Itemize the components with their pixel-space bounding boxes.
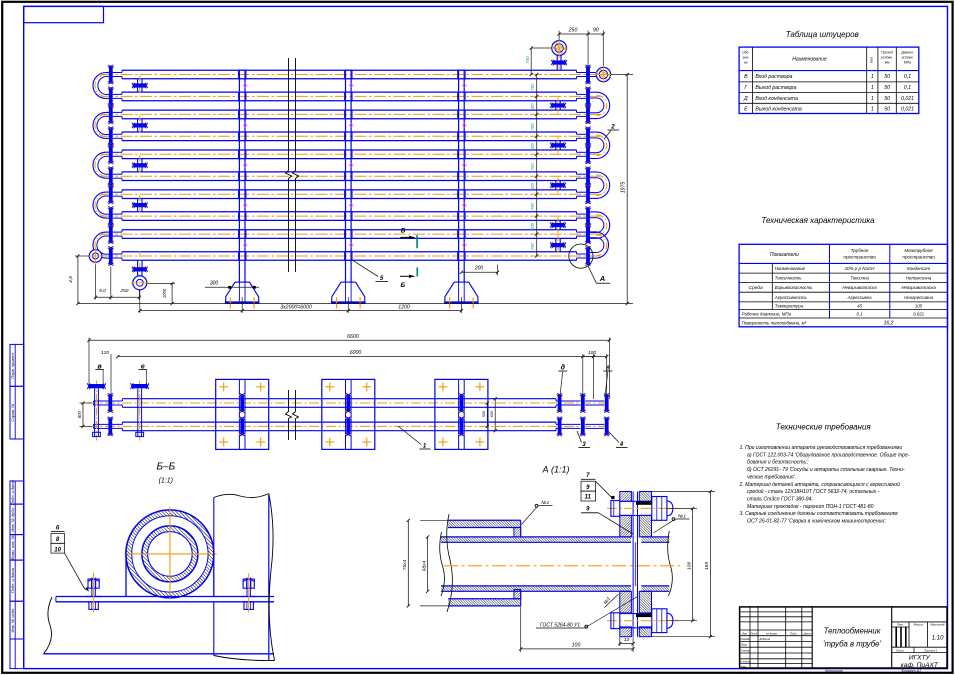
svg-text:Инв. № дубл.: Инв. № дубл. xyxy=(10,507,15,532)
А centerline xyxy=(444,565,680,567)
svg-text:Лист: Лист xyxy=(750,631,759,635)
detail circle А xyxy=(569,244,593,268)
svg-text:1:10: 1:10 xyxy=(932,636,944,642)
svg-text:2. Материал деталей аппарата,: 2. Материал деталей аппарата, соприкасаю… xyxy=(739,481,901,488)
svg-text:д: д xyxy=(561,364,566,372)
pipe row 3 inner tube stubs xyxy=(113,111,122,113)
svg-text:750: 750 xyxy=(530,202,535,210)
svg-text:Вход раствора: Вход раствора xyxy=(755,74,792,80)
svg-text:Листов 1: Листов 1 xyxy=(923,649,938,653)
svg-text:108: 108 xyxy=(686,562,692,570)
svg-text:50: 50 xyxy=(884,74,890,80)
svg-text:№ докум.: № докум. xyxy=(766,631,778,635)
svg-text:ГОСТ 5264-80 У1: ГОСТ 5264-80 У1 xyxy=(540,623,580,629)
svg-text:1. При изготовлении аппарата р: 1. При изготовлении аппарата руководство… xyxy=(740,445,903,451)
right U-bend pair 9-10 xyxy=(597,232,609,258)
left margin stamp boxes lower xyxy=(10,481,24,504)
svg-text:750: 750 xyxy=(530,83,535,91)
svg-text:Подп. и дата: Подп. и дата xyxy=(10,567,15,593)
Б-Б bolts xyxy=(91,578,93,597)
left flange pair rows 3,4 xyxy=(109,107,113,122)
svg-text:Давлен.: Давлен. xyxy=(900,51,914,55)
svg-text:А (1:1): А (1:1) xyxy=(541,465,569,475)
right annulus jumper pair 9-10 xyxy=(555,238,557,251)
support post 1 xyxy=(238,70,240,283)
left annulus jumper pair 1-2 xyxy=(137,79,139,92)
right U-bend pair 8-9 xyxy=(597,212,610,238)
pipe row 9 outer tube xyxy=(122,229,577,231)
А dimension Ø76х4 left xyxy=(420,519,448,521)
dimension 1975 right xyxy=(611,74,633,76)
svg-text:50: 50 xyxy=(884,85,890,91)
svg-text:Изм: Изм xyxy=(742,631,747,635)
svg-text:Таблица штуцеров: Таблица штуцеров xyxy=(786,30,859,39)
svg-text:Взрывоопасность: Взрывоопасность xyxy=(775,285,813,290)
svg-text:300: 300 xyxy=(210,281,219,287)
svg-text:1000: 1000 xyxy=(162,288,167,298)
Б-Б inner pipe ring hatched xyxy=(142,526,198,582)
support post 2 foot xyxy=(332,282,365,302)
svg-text:1975: 1975 xyxy=(620,182,626,194)
section mark Б lower xyxy=(416,267,418,276)
dimension 250/90 top xyxy=(558,31,560,41)
svg-text:Наименование: Наименование xyxy=(792,57,827,63)
left U-bend pair 5-6 xyxy=(93,152,106,178)
svg-text:Разраб.: Разраб. xyxy=(741,637,751,641)
svg-text:10: 10 xyxy=(54,548,61,554)
pipe row 5 centerline xyxy=(101,153,601,155)
right U-bend pair 2-3 xyxy=(597,92,610,118)
pipe row 2 outer tube xyxy=(122,91,577,93)
pipe row 8 centerline xyxy=(101,215,601,217)
svg-text:Техническая характеристика: Техническая характеристика xyxy=(761,216,875,225)
svg-text:Рабочее давление, МПа: Рабочее давление, МПа xyxy=(742,312,792,317)
title block horizontal lines left xyxy=(740,611,813,613)
left flange pair rows 5,6 xyxy=(109,147,113,162)
row1 right flange and nozzle (Г) xyxy=(586,67,590,82)
svg-text:1: 1 xyxy=(871,85,874,91)
svg-text:Б–Б: Б–Б xyxy=(157,462,176,473)
svg-text:105: 105 xyxy=(915,304,923,309)
svg-text:68х4: 68х4 xyxy=(421,560,427,571)
right U-bend pair 6-7 xyxy=(597,172,610,198)
А gasket joint lines xyxy=(632,492,634,637)
А outer pipe walls hatched xyxy=(448,520,521,527)
svg-text:Температура: Температура xyxy=(775,304,804,309)
svg-text:Межтрубное: Межтрубное xyxy=(904,248,933,253)
svg-text:0,1: 0,1 xyxy=(857,312,864,317)
svg-text:100: 100 xyxy=(572,643,581,649)
svg-text:100: 100 xyxy=(588,350,596,356)
svg-text:сталь Ст3сп ГОСТ 380-94.: сталь Ст3сп ГОСТ 380-94. xyxy=(747,496,813,502)
svg-text:№1: №1 xyxy=(541,500,549,506)
svg-text:1: 1 xyxy=(871,96,874,102)
svg-text:Формат А1: Формат А1 xyxy=(901,669,921,673)
break lines main view xyxy=(288,58,290,171)
Б-Б outer pipe ring hatched xyxy=(126,510,214,598)
svg-text:Добрина: Добрина xyxy=(759,637,771,641)
right annulus jumper pair 8-9 xyxy=(555,220,557,229)
svg-text:1: 1 xyxy=(871,74,874,80)
right flange pair rows 8,9 xyxy=(586,209,590,224)
pipe row 8 outer tube xyxy=(122,211,577,213)
left flange pair rows 7,8 xyxy=(109,187,113,202)
svg-text:Д: Д xyxy=(743,96,748,102)
position label 2 with leader xyxy=(604,131,611,140)
svg-text:Показатели: Показатели xyxy=(770,252,799,258)
plan dimension 6600 xyxy=(88,338,90,384)
plan view standpipe Е xyxy=(137,388,139,436)
А bolts xyxy=(607,507,678,509)
svg-text:6000: 6000 xyxy=(350,350,362,356)
svg-text:200: 200 xyxy=(474,266,484,272)
svg-text:600: 600 xyxy=(530,103,535,111)
plan left vertical dimension 800 xyxy=(80,402,93,404)
svg-text:13: 13 xyxy=(624,637,630,643)
characteristics table grid xyxy=(739,244,947,326)
svg-text:№1: №1 xyxy=(678,514,686,520)
Б-Б saddle support xyxy=(125,549,127,597)
svg-text:Проход: Проход xyxy=(881,51,893,55)
pipe row 5 outer tube xyxy=(122,149,577,151)
svg-text:11: 11 xyxy=(585,495,592,501)
nozzle А1 left (row10) xyxy=(89,250,102,263)
А pipe break lines xyxy=(447,514,453,612)
pipe row 10 inner tube stubs xyxy=(113,253,122,255)
support post 3 weld diamonds xyxy=(462,83,466,87)
А dimension 13 bottom xyxy=(619,637,621,646)
svg-text:Справ. №: Справ. № xyxy=(10,403,15,422)
dimension 300 at foot 1 xyxy=(205,286,259,288)
row spacing dimension column xyxy=(536,75,538,257)
А inner pipe walls hatched xyxy=(441,537,631,542)
svg-text:Лит.: Лит. xyxy=(896,622,904,626)
support post 1 weld diamonds xyxy=(243,83,247,87)
Б-Б centerlines xyxy=(124,553,216,555)
svg-text:Кол: Кол xyxy=(869,57,873,63)
svg-text:0,1: 0,1 xyxy=(904,85,911,91)
pipe row 2 inner tube stubs xyxy=(113,93,122,95)
svg-text:800: 800 xyxy=(77,411,82,419)
svg-text:Невзрывоопасна: Невзрывоопасна xyxy=(901,285,936,290)
А dimension Ø108 right xyxy=(667,507,697,509)
svg-text:Взам. инв. №: Взам. инв. № xyxy=(10,534,15,559)
svg-text:3. Сварные соединения должны с: 3. Сварные соединения должны соответство… xyxy=(740,511,899,517)
svg-text:Б: Б xyxy=(401,228,406,235)
svg-text:Неагрессивна: Неагрессивна xyxy=(904,295,934,300)
svg-text:А: А xyxy=(599,274,605,283)
svg-text:ческие требования'.: ческие требования'. xyxy=(747,474,796,480)
plan view pipes xyxy=(122,398,556,400)
svg-text:600: 600 xyxy=(490,410,494,417)
svg-text:Материал прокладок - паронит П: Материал прокладок - паронит ПОН-1 ГОСТ … xyxy=(747,504,874,510)
left flange pair rows 9,10 xyxy=(109,227,113,242)
svg-text:Трубное: Трубное xyxy=(851,248,869,253)
nozzle stub down row10 xyxy=(137,260,139,276)
svg-text:0,021: 0,021 xyxy=(913,312,925,317)
svg-text:Лист: Лист xyxy=(895,649,904,653)
svg-text:Обо-: Обо- xyxy=(742,51,750,55)
pipe row 10 outer tube xyxy=(122,251,577,253)
svg-text:750: 750 xyxy=(530,242,535,250)
svg-text:Нетоксична: Нетоксична xyxy=(906,276,932,281)
left U-bend pair 1-2 xyxy=(93,73,106,99)
plan inner vertical dimensions xyxy=(486,403,488,426)
svg-text:В: В xyxy=(744,74,748,80)
pipe row 1 centerline xyxy=(101,74,603,76)
svg-text:Агрессивна: Агрессивна xyxy=(847,295,872,300)
svg-text:Среда: Среда xyxy=(749,285,763,291)
А flange plates hatched xyxy=(620,492,632,502)
plan dimension 6000 xyxy=(110,354,112,395)
nozzle top (В) with stub xyxy=(552,41,567,56)
svg-text:Токсичность: Токсичность xyxy=(775,276,803,281)
pipe row 6 outer tube xyxy=(122,171,577,173)
nozzle Б2 below xyxy=(133,276,147,290)
svg-text:Подп. и дата: Подп. и дата xyxy=(10,479,15,505)
support post 2 xyxy=(345,70,347,283)
dimension 4,5 far left vertical xyxy=(75,255,89,257)
dimension 3x2000=6000 and 1200 bottom xyxy=(139,290,141,314)
left U-bend pair 7-8 xyxy=(93,192,106,218)
pipe row 5 inner tube stubs xyxy=(113,151,122,153)
left annulus jumper pair 3-4 xyxy=(137,119,139,132)
svg-text:Дата: Дата xyxy=(803,631,811,635)
svg-text:250: 250 xyxy=(568,28,578,34)
svg-text:4,5: 4,5 xyxy=(68,276,74,283)
plan view standpipe В xyxy=(94,388,96,436)
left annulus jumper pair 7-8 xyxy=(137,199,139,212)
svg-text:750: 750 xyxy=(525,56,530,64)
svg-text:Инв. № подл.: Инв. № подл. xyxy=(10,608,15,633)
svg-text:Поверхность теплообмена, м²: Поверхность теплообмена, м² xyxy=(742,320,807,325)
svg-text:16,2: 16,2 xyxy=(884,320,894,326)
pipe row 10 centerline xyxy=(101,255,601,257)
position label 5 with leader xyxy=(351,259,378,276)
right flange pair rows 2,3 xyxy=(586,89,590,104)
svg-text:Масса: Масса xyxy=(914,622,923,626)
plan view left inner-pipe flanges xyxy=(108,395,112,410)
svg-text:Выход раствора: Выход раствора xyxy=(755,85,796,91)
svg-text:(1:1): (1:1) xyxy=(159,478,173,485)
dimension 1000 nozzle drop xyxy=(148,283,176,285)
pipe row 1 outer tube xyxy=(122,69,577,71)
svg-text:Конденсат: Конденсат xyxy=(907,266,930,271)
plan position label 3 xyxy=(577,431,582,443)
А dimension Ø68х4 left inner xyxy=(427,537,429,591)
svg-text:0,021: 0,021 xyxy=(901,106,914,112)
pipe row 2 centerline xyxy=(101,95,601,97)
svg-text:90: 90 xyxy=(593,28,599,34)
svg-text:Агрессивность: Агрессивность xyxy=(774,295,808,300)
svg-text:Е: Е xyxy=(744,106,748,112)
svg-text:0,021: 0,021 xyxy=(901,96,914,102)
left margin stamp boxes upper xyxy=(10,344,24,386)
pipe row 3 centerline xyxy=(101,113,601,115)
plan dimension 100 xyxy=(582,354,584,396)
svg-text:ка: ка xyxy=(744,61,748,65)
А inner pipe right segment xyxy=(641,537,669,542)
Б-Б lower beam xyxy=(44,653,275,655)
pipe row 4 outer tube xyxy=(122,131,577,133)
pipe row 3 outer tube xyxy=(122,109,577,111)
svg-text:'труба в трубе': 'труба в трубе' xyxy=(823,640,881,649)
plan position label 4 xyxy=(608,431,619,443)
support post 2 weld diamonds xyxy=(349,83,353,87)
pipe row 6 inner tube stubs xyxy=(113,173,122,175)
svg-text:условн.: условн. xyxy=(901,56,914,60)
pipe row 6 centerline xyxy=(101,175,601,177)
svg-text:600: 600 xyxy=(530,183,535,191)
pipe row 7 centerline xyxy=(101,193,601,195)
support post 3 foot xyxy=(445,282,478,302)
Б-Б right channel xyxy=(213,602,215,656)
svg-text:пространство: пространство xyxy=(843,255,876,260)
title block frame xyxy=(740,607,947,668)
svg-text:50: 50 xyxy=(884,106,890,112)
right annulus jumper pair 2-3 xyxy=(555,101,557,110)
right annulus jumper pair 4-5 xyxy=(555,141,557,150)
pipe row 9 inner tube stubs xyxy=(113,231,122,233)
plan view right flanges xyxy=(558,395,562,410)
svg-text:Масштаб: Масштаб xyxy=(930,622,944,626)
svg-text:3х2000=6000: 3х2000=6000 xyxy=(280,304,312,310)
svg-text:Вход конденсата: Вход конденсата xyxy=(755,96,798,102)
svg-text:условн.: условн. xyxy=(880,56,893,60)
svg-text:Теплообменник: Теплообменник xyxy=(824,627,881,636)
svg-text:120: 120 xyxy=(101,350,109,356)
svg-text:Утв.: Утв. xyxy=(741,664,747,668)
svg-text:Пров.: Пров. xyxy=(741,643,748,647)
pipe row 1 inner tube stubs xyxy=(113,72,122,74)
svg-text:76х4: 76х4 xyxy=(402,559,408,570)
left U-bend pair 3-4 xyxy=(93,112,106,138)
Б-Б base plate xyxy=(56,596,274,598)
svg-text:Н.контр.: Н.контр. xyxy=(741,660,752,664)
svg-text:Перв. примен.: Перв. примен. xyxy=(10,352,15,379)
svg-text:Копировал: Копировал xyxy=(825,669,843,673)
pipe row 8 inner tube stubs xyxy=(113,213,122,215)
pipe row 7 inner tube stubs xyxy=(113,191,122,193)
svg-text:600: 600 xyxy=(530,143,535,151)
pipe row 4 centerline xyxy=(101,135,601,137)
right flange pair rows 9,10 xyxy=(586,227,590,242)
svg-text:пространство: пространство xyxy=(902,255,935,260)
support post 3 xyxy=(458,70,460,283)
svg-text:0,1: 0,1 xyxy=(904,74,911,80)
svg-text:45: 45 xyxy=(857,304,862,309)
svg-text:6600: 6600 xyxy=(347,334,359,340)
left flange pair rows 1,2 xyxy=(109,67,113,82)
title block vertical lines xyxy=(811,607,813,668)
svg-text:Невзрывоопасна: Невзрывоопасна xyxy=(842,285,877,290)
top-left reference box xyxy=(24,6,104,22)
svg-text:МПа: МПа xyxy=(904,61,911,65)
svg-text:ОСТ 26-01-82-77 'Сварка в хими: ОСТ 26-01-82-77 'Сварка в химическом маш… xyxy=(747,519,887,525)
svg-text:ИГХТУ: ИГХТУ xyxy=(909,655,931,662)
right flange pair rows 6,7 xyxy=(586,169,590,184)
svg-text:Токсична: Токсична xyxy=(850,276,869,281)
plan view support plates xyxy=(216,379,269,449)
svg-text:Т.контр.: Т.контр. xyxy=(741,648,752,652)
svg-text:600: 600 xyxy=(530,222,535,230)
А dimension Ø159 right xyxy=(652,491,715,493)
svg-text:750: 750 xyxy=(530,123,535,131)
support post 1 foot xyxy=(226,282,259,302)
svg-text:20% р-р NaOH: 20% р-р NaOH xyxy=(844,266,876,271)
dimension 200 at foot 3 xyxy=(497,265,499,276)
dimension 90/250 bottom left xyxy=(95,264,97,299)
svg-text:159: 159 xyxy=(704,562,710,570)
svg-text:б) ОСТ 26291- 79 'Сосуды и апп: б) ОСТ 26291- 79 'Сосуды и аппараты стал… xyxy=(747,467,905,473)
title block right cells xyxy=(892,621,947,623)
right U-bend pair 4-5 xyxy=(597,132,610,158)
plan view break lines xyxy=(288,390,290,412)
svg-text:средой - сталь 12Х18Н10Т ГОСТ: средой - сталь 12Х18Н10Т ГОСТ 5632-74, о… xyxy=(747,488,880,495)
svg-text:50: 50 xyxy=(884,96,890,102)
svg-text:мм: мм xyxy=(885,61,890,65)
А dimension 100 bottom xyxy=(520,607,522,653)
А annulus closure rings xyxy=(514,528,521,537)
svg-text:Подп.: Подп. xyxy=(790,631,797,635)
svg-text:Наименование: Наименование xyxy=(775,266,806,271)
pipe row 4 inner tube stubs xyxy=(113,133,122,135)
svg-text:9,0: 9,0 xyxy=(99,288,106,294)
svg-text:Технические требования: Технические требования xyxy=(776,423,872,432)
svg-text:Выход конденсата: Выход конденсата xyxy=(755,106,802,112)
svg-text:1200: 1200 xyxy=(398,304,410,310)
svg-text:500: 500 xyxy=(482,410,486,417)
svg-text:а) ГОСТ 122.003-74 'Оборудован: а) ГОСТ 122.003-74 'Оборудование произво… xyxy=(747,452,910,458)
pipe row 9 centerline xyxy=(101,233,601,235)
right annulus jumper pair 6-7 xyxy=(555,181,557,190)
left U-bend pair 9-10 xyxy=(93,232,106,258)
svg-text:750: 750 xyxy=(530,163,535,171)
svg-text:1: 1 xyxy=(871,106,874,112)
pipe row 7 outer tube xyxy=(122,189,577,191)
svg-text:зна-: зна- xyxy=(742,56,750,60)
dimension 750 top right vertical xyxy=(531,47,551,49)
svg-text:бования и безопасность';: бования и безопасность'; xyxy=(747,460,809,466)
right flange pair rows 4,5 xyxy=(586,129,590,144)
left annulus jumper pair 5-6 xyxy=(137,159,139,172)
svg-text:250: 250 xyxy=(119,288,128,294)
svg-text:Б: Б xyxy=(400,282,405,289)
plan position label 1 xyxy=(398,426,421,445)
nozzle table grid xyxy=(739,47,919,113)
